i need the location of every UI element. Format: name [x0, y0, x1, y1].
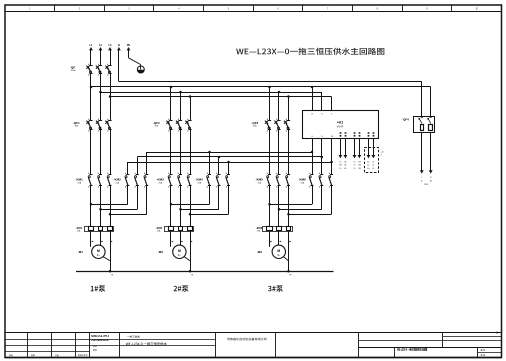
VFD control pin labels — [341, 132, 374, 136]
svg-text:-FR3: -FR3 — [256, 226, 263, 230]
svg-text:-KM5: -KM5 — [256, 178, 264, 182]
svg-text:A+: A+ — [367, 164, 369, 167]
node PE incoming earth arrow — [127, 44, 131, 58]
svg-text:3~: 3~ — [277, 253, 281, 257]
wire VFD output V bus — [137, 139, 321, 175]
contactor KM4 3-pole — [196, 173, 231, 188]
wire drops to VFD input R S T — [313, 87, 332, 110]
svg-text:-FR2: -FR2 — [156, 226, 163, 230]
wire M2 feeders — [171, 231, 193, 271]
wire drops to QF2 — [171, 87, 191, 121]
thermal relay FR2 — [156, 226, 194, 233]
wire pump 1 mains contactor output — [91, 186, 111, 227]
circuit breaker QF1 3-pole — [73, 119, 112, 132]
svg-text:-M2: -M2 — [158, 250, 163, 254]
wire phase L1 QF to QF1 — [90, 74, 92, 121]
wire PE to earth — [129, 58, 141, 66]
svg-text:+U: +U — [381, 151, 384, 153]
svg-text:CM: CM — [358, 165, 361, 167]
svg-text:-FR1: -FR1 — [76, 226, 83, 230]
svg-text:-KM6: -KM6 — [299, 178, 307, 182]
svg-text:220V: 220V — [424, 184, 429, 186]
wire phase L2 QF to QF1 — [100, 74, 102, 121]
wire pump 3 VFD contactor output merge — [268, 186, 331, 216]
wire QF3 outputs down — [270, 130, 289, 175]
wire phase bus C — [110, 96, 332, 98]
circuit breaker QF2 3-pole — [153, 119, 192, 132]
svg-text:CM: CM — [358, 168, 361, 170]
label pump 3 — [268, 285, 283, 291]
svg-text:-M3: -M3 — [257, 250, 262, 254]
drawing title text — [236, 48, 384, 55]
circuit breaker QF4 2-pole with thermal elements — [402, 117, 434, 133]
svg-text:APIWBOL: APIWBOL — [91, 339, 110, 342]
thermal relay FR1 — [76, 226, 114, 233]
svg-text:A+: A+ — [367, 160, 369, 163]
svg-text:+U1: +U1 — [337, 121, 343, 125]
contactor KM3 3-pole — [157, 173, 192, 188]
wire pump 2 VFD contactor output merge — [170, 186, 229, 216]
svg-text:10: 10 — [339, 168, 341, 170]
svg-text:PE: PE — [127, 44, 131, 47]
wire pump 3 mains contactor output — [270, 186, 289, 227]
wire phase L3 QF to QF1 — [110, 74, 112, 121]
wire M1 feeders — [91, 231, 113, 271]
title block texts — [9, 334, 485, 356]
junction dots VFD buses — [208, 151, 333, 164]
svg-text:N: N — [118, 44, 120, 47]
svg-text:-QF4: -QF4 — [402, 117, 409, 121]
wire QF1 outputs down — [91, 130, 111, 175]
svg-text:-KM4: -KM4 — [196, 178, 204, 182]
contactor KM1 3-pole — [76, 173, 112, 188]
motor M2 — [158, 245, 190, 261]
svg-text:1L: 1L — [421, 181, 423, 183]
svg-text:-QF2: -QF2 — [153, 121, 160, 125]
svg-text:-KM2: -KM2 — [114, 178, 122, 182]
svg-text:WEALPU: WEALPU — [91, 334, 109, 338]
wire VFD output U bus — [147, 139, 313, 175]
wire pump 1 VFD contactor output merge — [90, 186, 147, 216]
wire VFD output W bus — [128, 139, 332, 175]
svg-text:100A: 100A — [71, 69, 76, 72]
svg-text:-QF3: -QF3 — [251, 121, 258, 125]
label pump 2 — [174, 285, 189, 291]
svg-text:A+: A+ — [367, 167, 369, 170]
svg-text:VVVF: VVVF — [337, 125, 344, 129]
contactor KM5 3-pole — [256, 173, 291, 188]
VFD control terminal wires — [339, 139, 376, 170]
svg-text:CM: CM — [358, 161, 361, 163]
communication module U2 dashed box — [365, 148, 384, 173]
svg-text:L: L — [421, 177, 422, 179]
svg-text:-QF: -QF — [70, 66, 75, 70]
wire M3 feeders — [270, 231, 291, 271]
node L3 incoming supply arrow — [108, 44, 112, 66]
wire drops to KM4 — [210, 152, 229, 175]
svg-text:3~: 3~ — [97, 253, 101, 257]
svg-text:-KM3: -KM3 — [157, 178, 165, 182]
svg-text:-KM1: -KM1 — [76, 178, 84, 182]
motor M3 — [257, 245, 289, 261]
contactor KM6 3-pole — [299, 173, 334, 188]
wire QF4 outputs to control circuit — [420, 133, 433, 186]
motor M1 — [78, 245, 110, 261]
contactor KM2 3-pole — [114, 173, 149, 188]
junction dots bus taps — [90, 86, 314, 98]
svg-text:-M1: -M1 — [78, 250, 83, 254]
label pump 1 — [91, 285, 106, 291]
VFD pin labels R S T — [312, 114, 334, 116]
wire drops to QF3 — [270, 87, 289, 121]
wire phase bus B — [101, 92, 322, 94]
svg-text:W: W — [331, 136, 333, 138]
wire phase bus A — [91, 87, 431, 117]
wire QF2 outputs down — [171, 130, 191, 175]
VFD U1 box — [303, 111, 379, 139]
svg-text:3~: 3~ — [178, 253, 182, 257]
svg-text:10: 10 — [339, 161, 341, 163]
svg-text:-QF1: -QF1 — [73, 121, 80, 125]
wire pump 2 mains contactor output — [171, 186, 191, 227]
node L1 incoming supply arrow — [89, 44, 93, 66]
ground earth electrode symbol — [137, 66, 144, 73]
VFD pin labels U V W — [312, 136, 333, 138]
title block — [5, 333, 502, 358]
thermal relay FR3 — [256, 226, 293, 233]
circuit breaker QF3 3-pole — [251, 119, 290, 132]
circuit breaker QF main 3-pole — [70, 64, 112, 76]
node N incoming neutral arrow — [117, 44, 121, 82]
wire neutral bus N — [119, 82, 422, 117]
ground PE bus — [76, 270, 334, 276]
node L2 incoming supply arrow — [99, 44, 103, 66]
